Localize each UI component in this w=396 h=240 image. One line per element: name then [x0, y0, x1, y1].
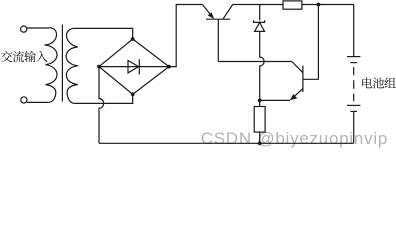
wire: bottom rail — [99, 142, 354, 144]
battery GB plate long top — [347, 56, 360, 58]
wire: primary bottom lead — [27, 101, 49, 103]
transistor Q2 emitter with arrow — [295, 89, 303, 96]
wire: top rail after R1 — [302, 4, 354, 6]
wire: zener down, hop over base wire — [260, 32, 264, 101]
junction dot: bridge top vertex — [131, 37, 135, 41]
transistor Q1 emitter with arrow — [202, 5, 210, 15]
wire: Q1 base down — [217, 19, 219, 61]
transformer T1 core — [61, 24, 63, 101]
junction dot: bridge left vertex — [97, 65, 101, 69]
wire: top rail right of Q1 — [233, 4, 283, 6]
wire: top rail to zener — [259, 5, 261, 21]
transistor Q1 collector — [223, 5, 233, 20]
junction dot: top rail node — [317, 3, 321, 7]
junction dot: node A — [258, 99, 262, 103]
battery GB plate short top — [350, 62, 357, 64]
bridge axis wire — [99, 66, 169, 68]
terminal circle: AC input top — [21, 26, 27, 32]
resistor R2 vertical — [254, 107, 265, 133]
transformer T1 secondary winding — [66, 28, 78, 103]
label: 交流输入 (AC input) — [1, 51, 48, 62]
circuit schematic: battery charger — [0, 0, 396, 159]
wire: secondary top to bridge top vertex — [74, 28, 133, 39]
svg-text:CSDN @biyezuopinvip: CSDN @biyezuopinvip — [201, 129, 388, 148]
wire: Q1 base to Q2 base — [218, 61, 291, 63]
battery dashed link — [353, 67, 355, 101]
bridge rectifier diamond — [99, 39, 169, 94]
battery GB plate long bottom — [347, 104, 360, 106]
battery GB plate short bottom — [350, 110, 357, 112]
wire: top rail corner down to battery — [353, 5, 355, 57]
wire: R2 to bottom rail — [259, 132, 261, 143]
wire: secondary bottom to bridge bottom vertex — [75, 94, 133, 103]
wire: node A to R2 — [259, 100, 261, 106]
junction dot: bridge right vertex — [167, 65, 171, 69]
junction dot: bottom rail node — [258, 141, 262, 145]
diode D1 inside bridge — [128, 59, 139, 74]
transistor Q2 collector lead — [303, 5, 319, 80]
transistor Q2 base bar — [302, 66, 304, 92]
transistor Q1 base bar — [206, 18, 230, 20]
junction dot: bridge bottom vertex — [131, 92, 135, 96]
wire: battery to bottom rail — [353, 111, 355, 143]
transistor Q2 base lead diagonal — [292, 62, 303, 73]
wire: node A to Q2 emitter — [260, 99, 290, 101]
terminal circle: AC input bottom — [21, 97, 27, 103]
wire: primary top lead — [27, 27, 50, 29]
resistor R1 — [283, 1, 302, 9]
label: 电池组 (battery pack) — [362, 77, 396, 88]
transformer T1 primary winding — [45, 28, 58, 103]
zener diode VD cathode bar — [254, 20, 265, 22]
zener diode VD triangle — [255, 22, 265, 31]
wire: bridge right vertex up to top rail — [169, 5, 202, 67]
wire: bridge left vertex down, hop over secondary wire — [99, 67, 104, 144]
